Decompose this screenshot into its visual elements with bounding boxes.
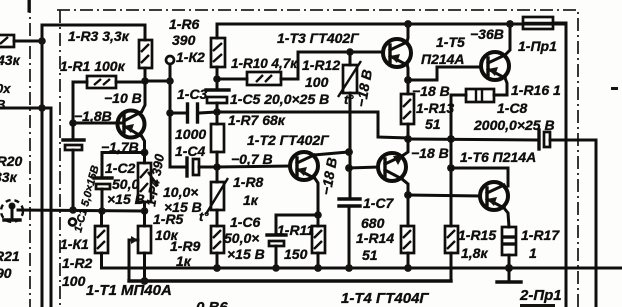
svg-text:1-Т1 МП40А: 1-Т1 МП40А <box>86 282 172 299</box>
svg-text:0,В6: 0,В6 <box>196 299 228 307</box>
svg-text:−18 В: −18 В <box>412 83 450 99</box>
svg-text:R21: R21 <box>0 248 20 264</box>
svg-text:1к: 1к <box>243 192 259 208</box>
svg-text:50,0: 50,0 <box>112 176 139 192</box>
svg-text:1-Т2 ГТ402Г: 1-Т2 ГТ402Г <box>247 132 330 148</box>
svg-text:1-С4: 1-С4 <box>175 143 206 159</box>
svg-text:1-R11: 1-R11 <box>277 222 314 238</box>
svg-text:1-R2: 1-R2 <box>62 255 93 271</box>
svg-text:90: 90 <box>0 265 12 281</box>
svg-text:51: 51 <box>425 116 441 132</box>
svg-text:680: 680 <box>361 215 385 231</box>
svg-text:33к: 33к <box>0 169 18 185</box>
svg-text:1-R1 100к: 1-R1 100к <box>60 58 126 74</box>
svg-text:1-R15: 1-R15 <box>458 227 496 243</box>
svg-text:1: 1 <box>529 245 537 261</box>
svg-text:100: 100 <box>62 273 86 289</box>
svg-text:51: 51 <box>362 247 378 263</box>
svg-text:390: 390 <box>172 32 196 48</box>
svg-text:43к: 43к <box>0 52 21 68</box>
svg-text:1-R3 3,3к: 1-R3 3,3к <box>68 28 130 44</box>
svg-text:1-С3: 1-С3 <box>177 86 208 102</box>
svg-text:1-С7: 1-С7 <box>363 195 395 211</box>
svg-text:−18 В: −18 В <box>411 145 449 161</box>
svg-text:П214А: П214А <box>421 51 465 67</box>
svg-text:1-R13: 1-R13 <box>416 100 454 116</box>
svg-text:1-R10 4,7к: 1-R10 4,7к <box>231 56 298 71</box>
svg-text:1,8к: 1,8к <box>461 245 488 261</box>
svg-text:1-К1: 1-К1 <box>60 236 89 252</box>
svg-text:×15 В: ×15 В <box>164 199 202 215</box>
svg-text:1-С2: 1-С2 <box>105 160 136 176</box>
svg-text:×15 В: ×15 В <box>227 246 265 262</box>
svg-text:2000,0×25 В: 2000,0×25 В <box>473 117 555 133</box>
svg-text:1-Т4 ГТ404Г: 1-Т4 ГТ404Г <box>341 290 429 307</box>
svg-text:1-R7 68к: 1-R7 68к <box>228 112 286 128</box>
svg-text:1000: 1000 <box>175 126 206 142</box>
svg-text:1-Т5: 1-Т5 <box>436 34 465 50</box>
svg-text:1-R8: 1-R8 <box>233 174 264 190</box>
svg-text:1-Т6 П214А: 1-Т6 П214А <box>460 149 536 165</box>
svg-text:−0,7 В: −0,7 В <box>231 151 273 167</box>
svg-text:1-R14: 1-R14 <box>356 230 394 246</box>
svg-text:1-R12: 1-R12 <box>302 57 340 73</box>
svg-text:2-Пр1: 2-Пр1 <box>519 287 562 304</box>
svg-text:1-С6: 1-С6 <box>230 214 261 230</box>
svg-text:1-С5 20,0×25 В: 1-С5 20,0×25 В <box>230 91 329 107</box>
svg-text:100: 100 <box>305 74 329 90</box>
svg-text:В: В <box>0 97 5 112</box>
svg-text:1-R6: 1-R6 <box>169 16 200 32</box>
svg-text:1к: 1к <box>176 253 192 269</box>
svg-text:50,0×: 50,0× <box>224 230 259 246</box>
svg-text:1-R9: 1-R9 <box>170 238 201 254</box>
svg-text:10,0×: 10,0× <box>163 184 198 200</box>
svg-text:1-Т3 ГТ402Г: 1-Т3 ГТ402Г <box>277 30 360 46</box>
svg-text:-R20: -R20 <box>0 153 23 169</box>
svg-text:1-R16 1: 1-R16 1 <box>511 82 561 98</box>
svg-text:150: 150 <box>284 246 308 262</box>
svg-text:1-Пр1: 1-Пр1 <box>518 38 557 54</box>
svg-text:−10 В: −10 В <box>104 90 142 106</box>
svg-text:1-С8: 1-С8 <box>497 100 528 116</box>
svg-text:−36В: −36В <box>470 26 504 42</box>
svg-text:1-К2: 1-К2 <box>176 49 205 65</box>
svg-text:0х: 0х <box>0 81 11 96</box>
svg-text:1-R17: 1-R17 <box>521 227 560 243</box>
